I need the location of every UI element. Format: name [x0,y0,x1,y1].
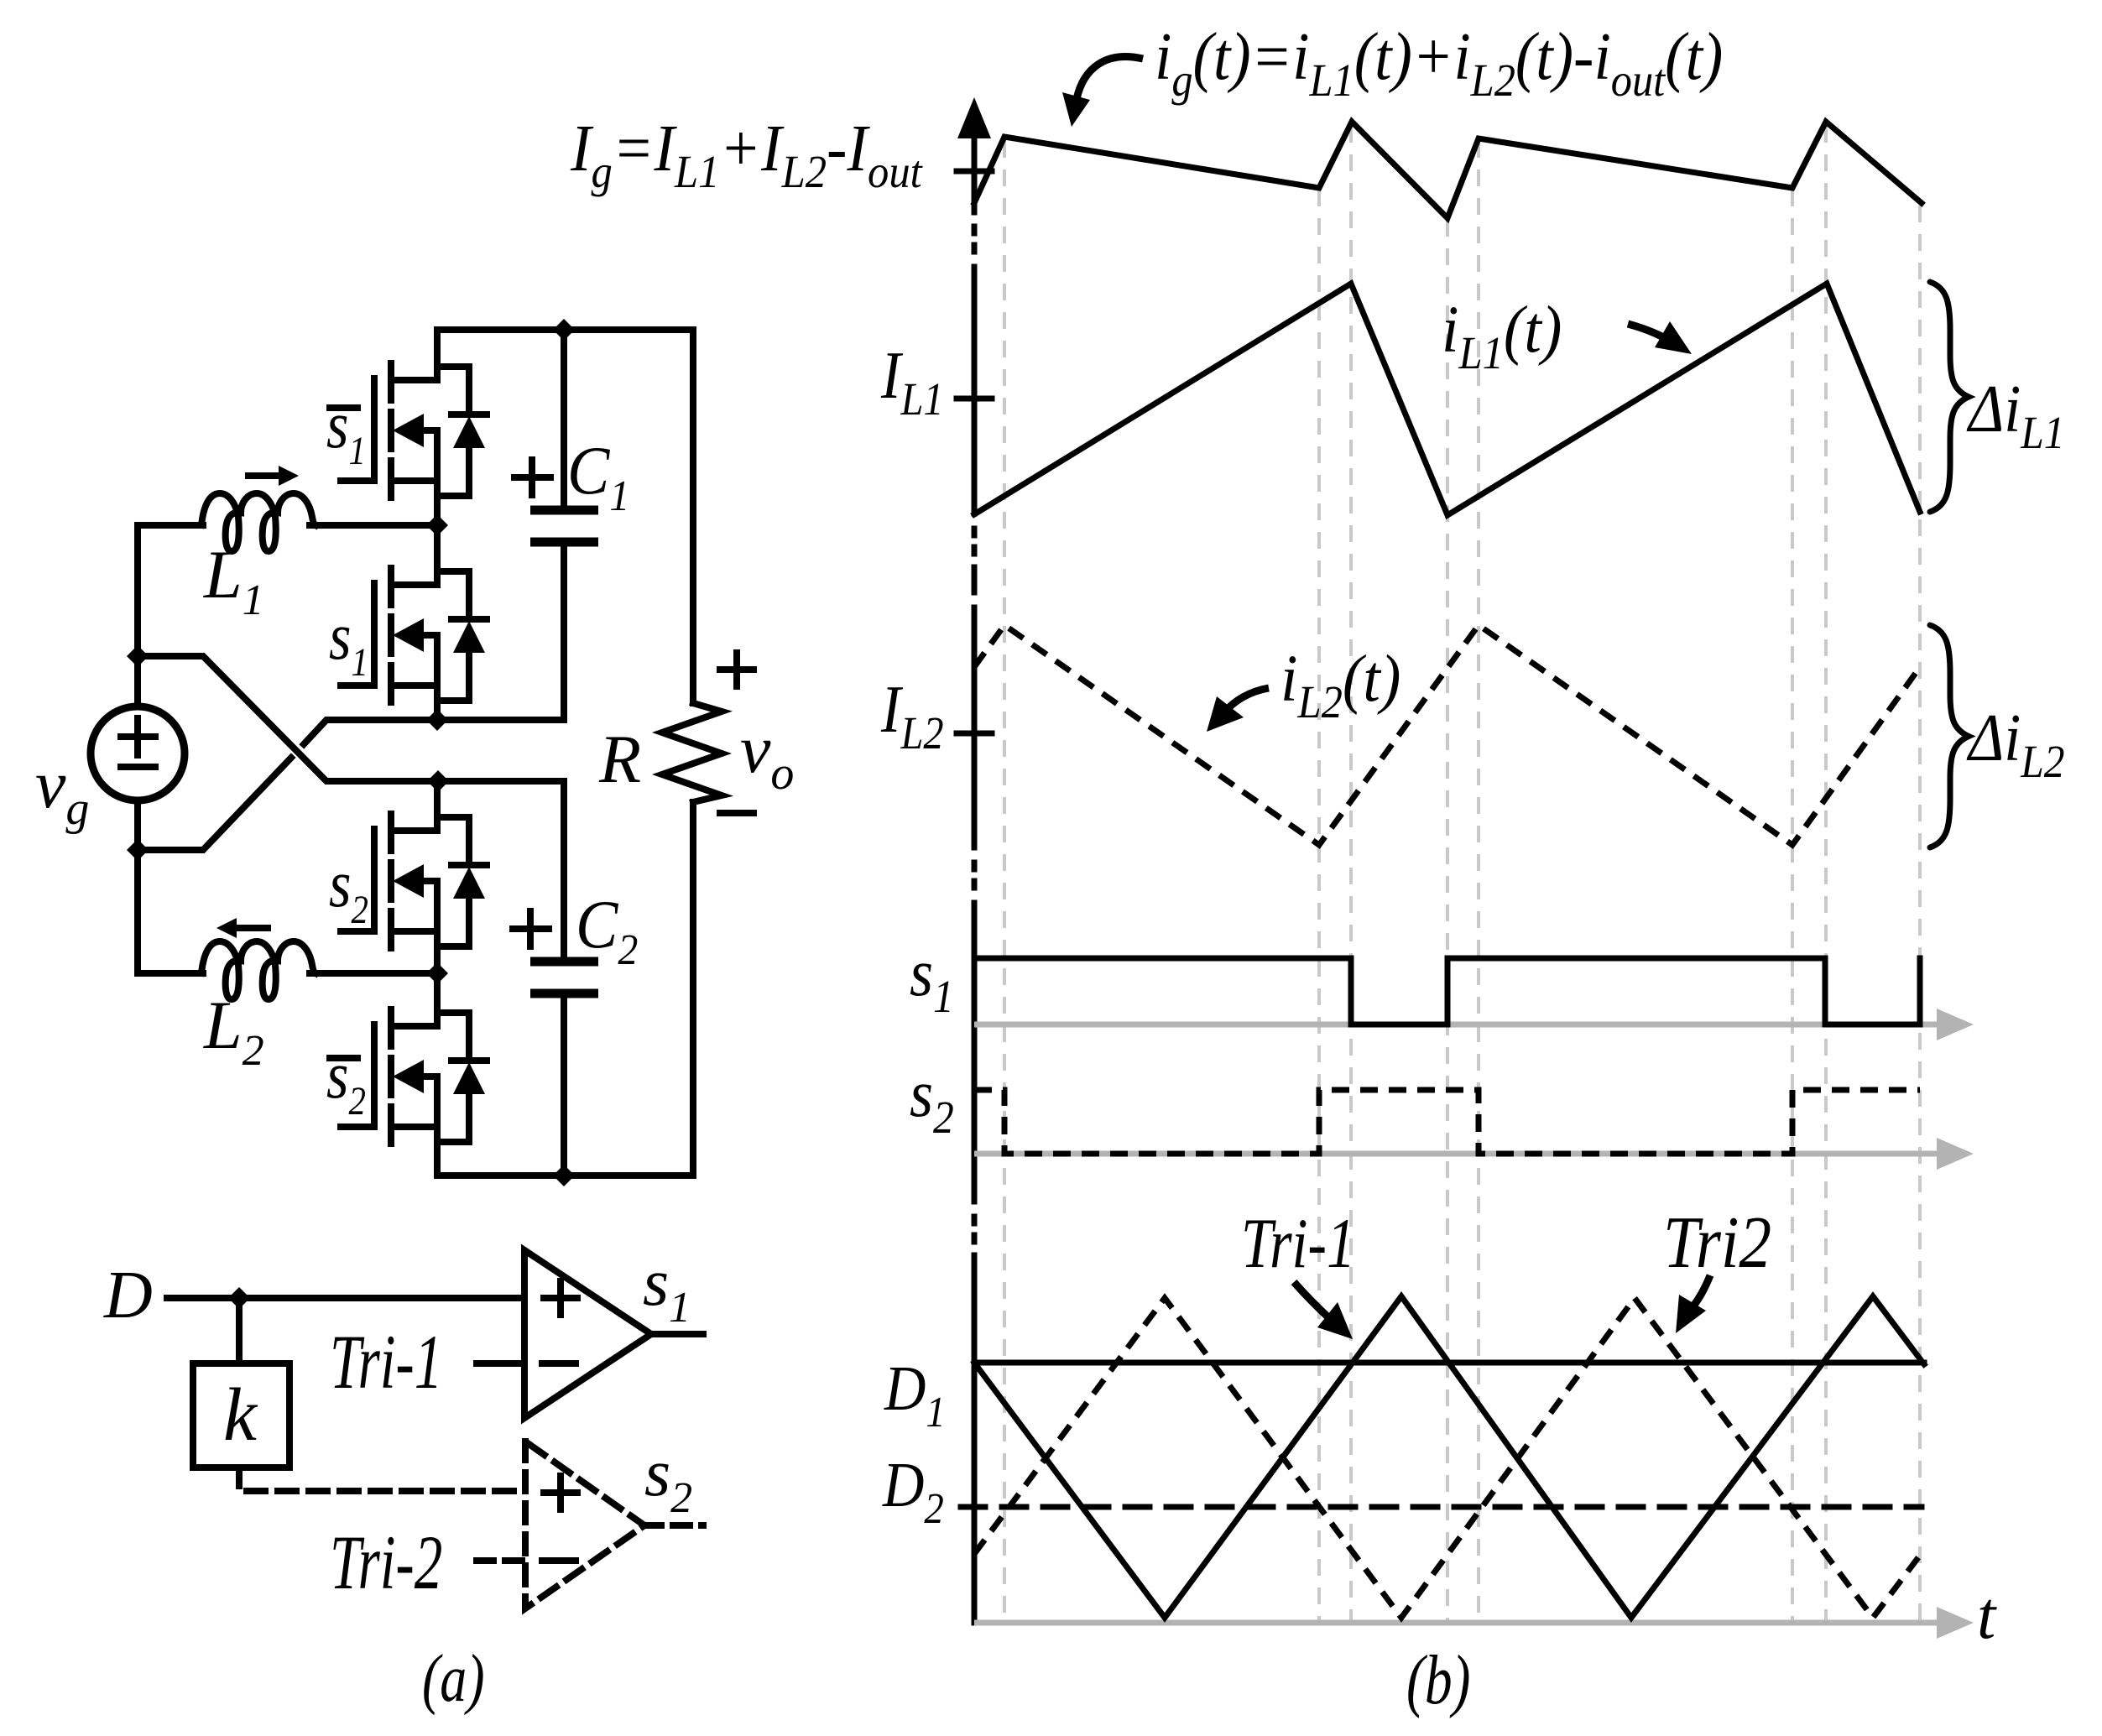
transistor S1 lower phase-1 switch: gate bar [371,583,378,686]
label s̄2 [326,1039,366,1123]
transistor S̄1 upper phase-1 switch: body arrow [393,414,424,447]
label C1 [567,433,629,519]
transistor S̄2 lower phase-2 switch: body arrow [393,1060,424,1093]
transistor S̄2 lower phase-2 switch: gate lead [341,1123,374,1130]
label Tri-1 [330,1320,442,1405]
label s1 (axis) [910,936,954,1023]
label ΔiL2 [1966,701,2064,788]
wire L2 left lead [138,970,203,977]
svg-text:R: R [598,721,641,797]
transistor S̄2 lower phase-2 switch: channel segments [388,1009,394,1144]
inductor L2 [201,941,316,999]
node s1 source / C1 bottom junction [426,709,448,731]
wire Tri-2 input (dashed) [477,1557,525,1564]
annotation arrow to ig [1077,57,1143,99]
gridline x=1725 [1446,220,1449,1623]
node bottom rail / C2 bottom junction [553,1165,575,1186]
label R [598,721,641,797]
label L1 [203,536,264,624]
label Tri-2 [330,1520,442,1606]
label s̄1 [326,388,366,473]
wire left branch upper (L1 to vg) [134,525,141,704]
gridline x=1197 [1003,141,1006,1623]
wire top rail [437,326,693,333]
annotation arrow to iL2 [1224,688,1269,712]
svg-text:L1​: L1​ [203,536,264,624]
label s1 [329,600,368,685]
axis s2 time base (gray) [974,1151,1947,1157]
label D2 (axis) [882,1450,944,1533]
waveform ig(t) [974,122,1922,218]
svg-text:Tri-1: Tri-1 [1241,1203,1355,1283]
svg-text:IL2​: IL2​ [880,673,944,759]
transistor S̄1 upper phase-1 switch: gate lead [341,477,374,484]
svg-text:D: D [103,1259,153,1332]
transistor S2 upper phase-2 switch: gate bar [371,829,378,931]
arrow iL1 current direction [248,472,281,479]
capacitor C2 lower lead [561,998,567,1176]
transistor S̄2 lower phase-2 switch: gate bar [371,1024,378,1127]
svg-text:ig​(t)=iL1​(t)+iL2​(t)-iout​(t: ig​(t)=iL1​(t)+iL2​(t)-iout​(t) [1155,19,1723,106]
transistor S2 upper phase-2 switch: source stub [391,931,437,973]
wire L1 left lead [138,522,203,529]
label s1 (U1 output) [643,1246,691,1332]
wire L2 right lead [310,970,437,977]
svg-text:s1​: s1​ [329,600,368,685]
svg-text:s2​: s2​ [644,1436,692,1522]
voltage source vg [91,706,185,800]
node vg+ / crossover upper junction [127,645,149,667]
wire L1 right lead [310,522,437,529]
gridline x=2288 [1918,206,1922,1623]
axis t (gray) [974,1620,1947,1626]
label (a) [422,1640,485,1716]
capacitor C2 upper lead [561,781,567,960]
svg-text:t: t [1977,1579,1997,1653]
wire U2 output s2 (dashed) [644,1522,703,1529]
svg-text:s1​: s1​ [910,936,954,1023]
transistor S1 lower phase-1 switch: body arrow [393,618,424,652]
svg-text:s1​: s1​ [643,1246,691,1332]
waveform Tri-1 triangle carrier [974,1296,1924,1618]
svg-text:iL1​(t): iL1​(t) [1442,292,1562,378]
label C2 [576,887,638,973]
transistor S̄1 upper phase-1 switch: gate bar [371,378,378,481]
wire U1 output s1 [651,1331,703,1337]
wire left branch lower (vg to L2) [134,803,141,973]
label vo [740,711,794,800]
line D2 duty level (dashed) [961,1504,1922,1510]
wire right branch lower (R to bottom rail) [690,802,696,1176]
svg-text:s1​: s1​ [326,388,366,473]
op-amp U2 PWM comparator (s2, dashed) [525,1441,644,1608]
capacitor C2 plates [530,962,598,993]
line D1 duty level [974,1360,1924,1366]
wire D node to gain block k [236,1298,243,1363]
label Tri2 (carrier) [1663,1201,1771,1283]
gridline x=1762 [1477,141,1480,1623]
label t [1977,1579,1997,1653]
op-amp U1 PWM comparator (s1) [524,1250,651,1418]
body diode of S̄2 lower phase-2 switch [437,1013,469,1142]
waveform Tri-2 triangle carrier (dashed) [974,1298,1922,1618]
brace ΔiL2 [1930,625,1969,847]
arrow iL2 current direction [235,925,268,931]
axis s1 time base (gray) [974,1022,1947,1028]
label iL1(t) [1442,292,1562,378]
svg-text:vo​: vo​ [740,711,794,800]
svg-text:Tri-1: Tri-1 [330,1320,442,1405]
node D fan-out junction [228,1287,250,1309]
transistor S̄2 lower phase-2 switch: drain stub [391,973,437,1026]
gridline x=1610 [1349,126,1353,1623]
svg-text:iL2​(t): iL2​(t) [1280,641,1400,727]
label + (vo polarity) [720,653,754,686]
waveform s2 dashed [974,1090,1920,1154]
transistor S1 lower phase-1 switch: drain stub [391,525,437,585]
svg-text:(b): (b) [1406,1641,1470,1719]
label s2 (axis) [910,1057,954,1144]
label Tri-1 (carrier) [1241,1203,1355,1283]
svg-text:L2​: L2​ [203,987,264,1075]
label + (C2 polarity) [513,911,549,946]
svg-text:s2​: s2​ [329,847,368,932]
label s2 (U2 output) [644,1436,692,1522]
wire crossover: upper node to s2 drain net [138,656,564,781]
label s2 [329,847,368,932]
svg-text:s2​: s2​ [326,1039,366,1123]
capacitor C1 upper lead [561,330,567,508]
capacitor C1 lower lead [561,546,567,720]
svg-text:vg​: vg​ [35,746,89,835]
label − (vo polarity) [720,810,754,816]
annotation arrow to Tri-1 [1294,1282,1328,1317]
label L2 [203,987,264,1075]
resistor R [662,703,722,802]
tick IL1 level [957,396,992,402]
svg-text:Tri2: Tri2 [1663,1201,1771,1283]
transistor S2 upper phase-2 switch: gate lead [341,928,374,935]
svg-text:Tri-2: Tri-2 [330,1520,442,1606]
gridline x=2136 [1791,190,1794,1623]
svg-text:D1​: D1​ [884,1353,946,1436]
inductor L1 [201,493,316,551]
node phase-1 switch midpoint (L1) [426,514,448,536]
label k [223,1374,258,1457]
label vg [35,746,89,835]
svg-text:C2​: C2​ [576,887,638,973]
waveform iL1(t) [974,284,1920,515]
label ΔiL1 [1966,373,2064,459]
label IL2 (axis) [880,673,944,759]
transistor S2 upper phase-2 switch: channel segments [388,814,394,948]
label D [103,1259,153,1332]
transistor S1 lower phase-1 switch: gate lead [341,682,374,689]
brace ΔiL1 [1930,282,1969,512]
transistor S̄1 upper phase-1 switch: channel segments [388,363,394,498]
gridline x=1572 [1317,190,1321,1623]
svg-text:D2​: D2​ [882,1450,944,1533]
svg-text:ΔiL2​: ΔiL2​ [1966,701,2064,788]
wire Tri-1 input [477,1360,524,1367]
gain block k [193,1363,289,1468]
svg-text:s2​: s2​ [910,1057,954,1144]
label ig(t)=iL1(t)+iL2(t)-iout(t) [1155,19,1723,106]
waveform iL2(t) dashed [974,625,1920,845]
label + (C1 polarity) [514,460,550,495]
annotation arrow to Tri2 [1689,1275,1710,1311]
wire right branch upper (top rail to R) [690,330,696,703]
label iL2(t) [1280,641,1400,727]
transistor S1 lower phase-1 switch: source stub [391,686,437,720]
wire D input [167,1295,524,1301]
svg-text:ΔiL1​: ΔiL1​ [1966,373,2064,459]
svg-text:k: k [223,1374,258,1457]
gridline x=2176 [1824,126,1828,1623]
node phase-2 switch midpoint (L2) [426,962,448,984]
svg-text:C1​: C1​ [567,433,629,519]
capacitor C1 plates [530,510,598,542]
svg-text:IL1​: IL1​ [880,339,944,425]
label D1 (axis) [884,1353,946,1436]
transistor S̄1 upper phase-1 switch: drain stub [391,330,437,380]
transistor S̄1 upper phase-1 switch: source stub [391,481,437,525]
body diode of S̄1 upper phase-1 switch [437,367,469,496]
wire k output to comparator U2 + input (dashed) [239,1468,525,1491]
transistor S1 lower phase-1 switch: channel segments [388,568,394,702]
wire crossover: lower node to s1 source net (hop gap at crossing) [138,758,291,850]
label IL1 (axis) [880,339,944,425]
annotation arrow to iL1 [1628,324,1672,342]
svg-text:Ig​=IL1​+IL2​-Iout​: Ig​=IL1​+IL2​-Iout​ [570,111,923,197]
node top-rail / C1 top junction [553,319,575,341]
node vg- / crossover lower junction [127,839,149,861]
waveform s1 [974,958,1920,1024]
tick Ig level [957,169,992,175]
body diode of S1 lower phase-1 switch [437,571,469,701]
svg-text:(a): (a) [422,1640,485,1716]
body diode of S2 upper phase-2 switch [437,817,469,946]
label (b) [1406,1641,1470,1719]
label Ig=IL1+IL2-Iout [570,111,923,197]
tick IL2 level [957,731,992,737]
axis vertical (dash-dot-dot) [972,136,978,1623]
transistor S̄2 lower phase-2 switch: source stub [391,1127,437,1176]
wire bottom rail [437,1172,693,1179]
node s2 drain / C2 top junction [427,770,449,792]
transistor S2 upper phase-2 switch: drain stub [391,781,437,831]
transistor S2 upper phase-2 switch: body arrow [393,864,424,898]
